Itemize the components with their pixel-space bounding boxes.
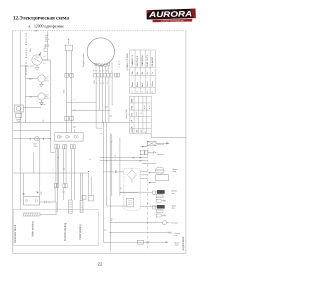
svg-text:Black: Black	[137, 82, 139, 87]
breaker pair boxes	[140, 150, 156, 155]
wire: engine block boundary vertical	[109, 134, 111, 252]
dc winding coil	[69, 200, 72, 213]
main winding coil	[24, 213, 57, 216]
wire: second pin row down to windings	[55, 188, 64, 202]
svg-text:AURORA: AURORA	[148, 9, 193, 19]
engine pins	[95, 62, 112, 73]
fuel cut solenoid valve box	[147, 141, 169, 146]
svg-text:plug: plug	[172, 208, 175, 210]
wire: meters left bus	[25, 66, 27, 123]
wire: switch to right bus	[42, 59, 50, 61]
svg-text:Oil switch: Oil switch	[171, 222, 178, 225]
svg-text:Field winding: Field winding	[78, 224, 82, 240]
engine (big circle)	[87, 38, 114, 65]
wire: lamp line y138.7	[13, 138, 51, 140]
oil pressure switch	[162, 221, 169, 225]
svg-text:2.2: 2.2	[62, 169, 65, 171]
wire: x57 generator feed	[57, 149, 59, 212]
ignition coil cluster	[153, 190, 166, 202]
wire: bus y104.6	[23, 105, 45, 108]
svg-text:Engine sensor: Engine sensor	[82, 53, 85, 67]
wire: harness step joins	[96, 110, 112, 196]
svg-text:Red: Red	[142, 83, 144, 87]
voltmeter (upper meter)	[26, 75, 49, 87]
svg-text:motor: motor	[175, 244, 180, 247]
wire: right of switch vertical	[50, 60, 52, 152]
table: switch position matrix (lower right)	[130, 96, 152, 133]
wire: field winding feeds	[81, 173, 83, 201]
switch matrix vertical texts	[131, 98, 151, 133]
wire: vertical x33.8	[33, 152, 35, 173]
spark plug cluster	[153, 205, 166, 217]
connector: key switch plug	[42, 31, 49, 60]
wire: top-left vertical drop	[20, 31, 34, 210]
wire: x50 step into sockets	[51, 151, 55, 153]
wire: control panel bottom boundary	[13, 130, 51, 132]
svg-text:Generator block: Generator block	[13, 224, 17, 243]
svg-text:Yellow: Yellow	[152, 81, 154, 87]
wire: avr to section boundary arrows	[140, 171, 147, 178]
svg-text:2.2: 2.2	[62, 192, 65, 194]
svg-text:B/W: B/W	[115, 169, 117, 173]
field winding coil	[80, 195, 93, 212]
wire: panel drops right pair to dc winding	[71, 149, 74, 200]
section divider: engine dash-dot line	[147, 141, 149, 251]
wire: bus y102.2	[67, 101, 97, 103]
regulator box inside avr	[127, 198, 134, 207]
svg-text:Green: Green	[147, 81, 149, 87]
generator block boundary	[13, 210, 98, 246]
svg-text:Bk: Bk	[137, 72, 139, 74]
wire: fuel feed vertical	[120, 138, 138, 197]
svg-text:a. 12000 однофазные: a. 12000 однофазные	[29, 24, 65, 28]
svg-text:FUEL CUT V: FUEL CUT V	[147, 54, 149, 66]
wire: fuel valve left feed	[140, 146, 147, 148]
svg-text:CONNECTOR WIRE: CONNECTOR WIRE	[127, 52, 129, 70]
scattered wire labels	[30, 47, 123, 231]
svg-text:СИЛОВОЕ ОБОРУДОВАНИЕ: СИЛОВОЕ ОБОРУДОВАНИЕ	[161, 19, 185, 22]
table: connector legend (upper right)	[130, 50, 156, 93]
junction dots	[41, 104, 149, 233]
logo red tagline strip	[153, 19, 193, 23]
tick marks on harness lines	[105, 107, 112, 116]
avr dashed module	[124, 168, 140, 210]
svg-text:Gn: Gn	[147, 72, 149, 75]
battery	[23, 191, 44, 205]
harness connector block (left of engine circle)	[64, 39, 77, 133]
svg-text:3.4W: 3.4W	[33, 146, 37, 148]
indicator lamp on y138.7 wire	[30, 136, 44, 148]
svg-text:IGN: IGN	[132, 105, 134, 109]
socket mid labels	[52, 169, 65, 171]
svg-text:CHARGE CL: CHARGE CL	[131, 54, 134, 67]
wire: avr left links	[103, 172, 126, 206]
ground: under ignition switch	[35, 67, 39, 70]
battery output wire with inline fuse	[40, 201, 57, 215]
svg-text:IGNITION S: IGNITION S	[137, 55, 139, 66]
svg-text:White: White	[131, 81, 134, 87]
wire: charge line	[110, 232, 171, 234]
charge coil terminal	[169, 231, 171, 234]
label block: key switch terminals	[45, 35, 50, 43]
svg-text:Engine block: Engine block	[182, 236, 185, 250]
schematic outer frame	[13, 31, 186, 253]
svg-text:Control panel device: Control panel device	[24, 32, 28, 75]
wire: y160.7	[100, 160, 148, 162]
svg-text:Main winding: Main winding	[30, 221, 34, 237]
label: right of engine circle	[119, 61, 121, 68]
socket panel	[55, 126, 84, 141]
starter motor box	[138, 240, 144, 244]
logo AURORA banner	[147, 9, 196, 20]
hour meter module	[14, 105, 23, 122]
wire: panel drops mid pair	[64, 149, 67, 183]
wire: bus y173	[13, 173, 91, 195]
wire: vertical x39.8	[39, 139, 41, 197]
svg-text:12.Электрическая схема: 12.Электрическая схема	[13, 16, 69, 22]
socket second pin row	[54, 183, 67, 193]
svg-text:relay: relay	[173, 170, 177, 173]
wire: oil sensor line	[110, 222, 162, 224]
svg-text:Rd: Rd	[142, 72, 144, 75]
wire: panel drops left pair	[56, 149, 58, 183]
tiny labels on avr output wires	[115, 156, 117, 161]
svg-text:DC/CW winding: DC/CW winding	[63, 222, 67, 241]
wire: engine harness verticals	[96, 77, 112, 122]
wire: y157.6	[100, 157, 148, 159]
harness connector row under engine	[94, 73, 120, 77]
wire: avr feeds	[103, 123, 106, 211]
svg-text:Breaker: Breaker	[158, 153, 164, 156]
starter solenoid ellipse	[142, 164, 168, 184]
ignition switch	[32, 51, 46, 65]
wire: table2 tail to frame	[151, 134, 185, 138]
wire: bus y122.6	[13, 122, 130, 124]
arrowheads on avr output wires	[132, 146, 145, 162]
svg-text:OIL ALERT: OIL ALERT	[151, 56, 154, 67]
wire: bus y110.3	[71, 109, 110, 111]
tick on top frame edge	[35, 30, 38, 32]
rectifier diamond inside avr	[127, 168, 136, 182]
right margin labels column	[158, 143, 181, 247]
table legend vertical texts	[131, 54, 154, 93]
svg-text:Fuel cut: Fuel cut	[158, 143, 165, 146]
socket panel pin row	[55, 145, 75, 149]
svg-text:Wh: Wh	[132, 71, 134, 74]
svg-text:B/W: B/W	[64, 89, 66, 93]
wire: relay links	[120, 192, 157, 206]
svg-text:22: 22	[98, 262, 103, 267]
svg-text:Switch SW: Switch SW	[125, 109, 128, 118]
svg-text:STARTER M: STARTER M	[141, 55, 144, 67]
ammeter (lower meter)	[26, 93, 49, 105]
wire: starter line	[103, 210, 168, 242]
wire colour labels under connector	[94, 69, 109, 83]
wire: battery feeds	[23, 173, 25, 197]
svg-text:B/W: B/W	[94, 80, 96, 84]
